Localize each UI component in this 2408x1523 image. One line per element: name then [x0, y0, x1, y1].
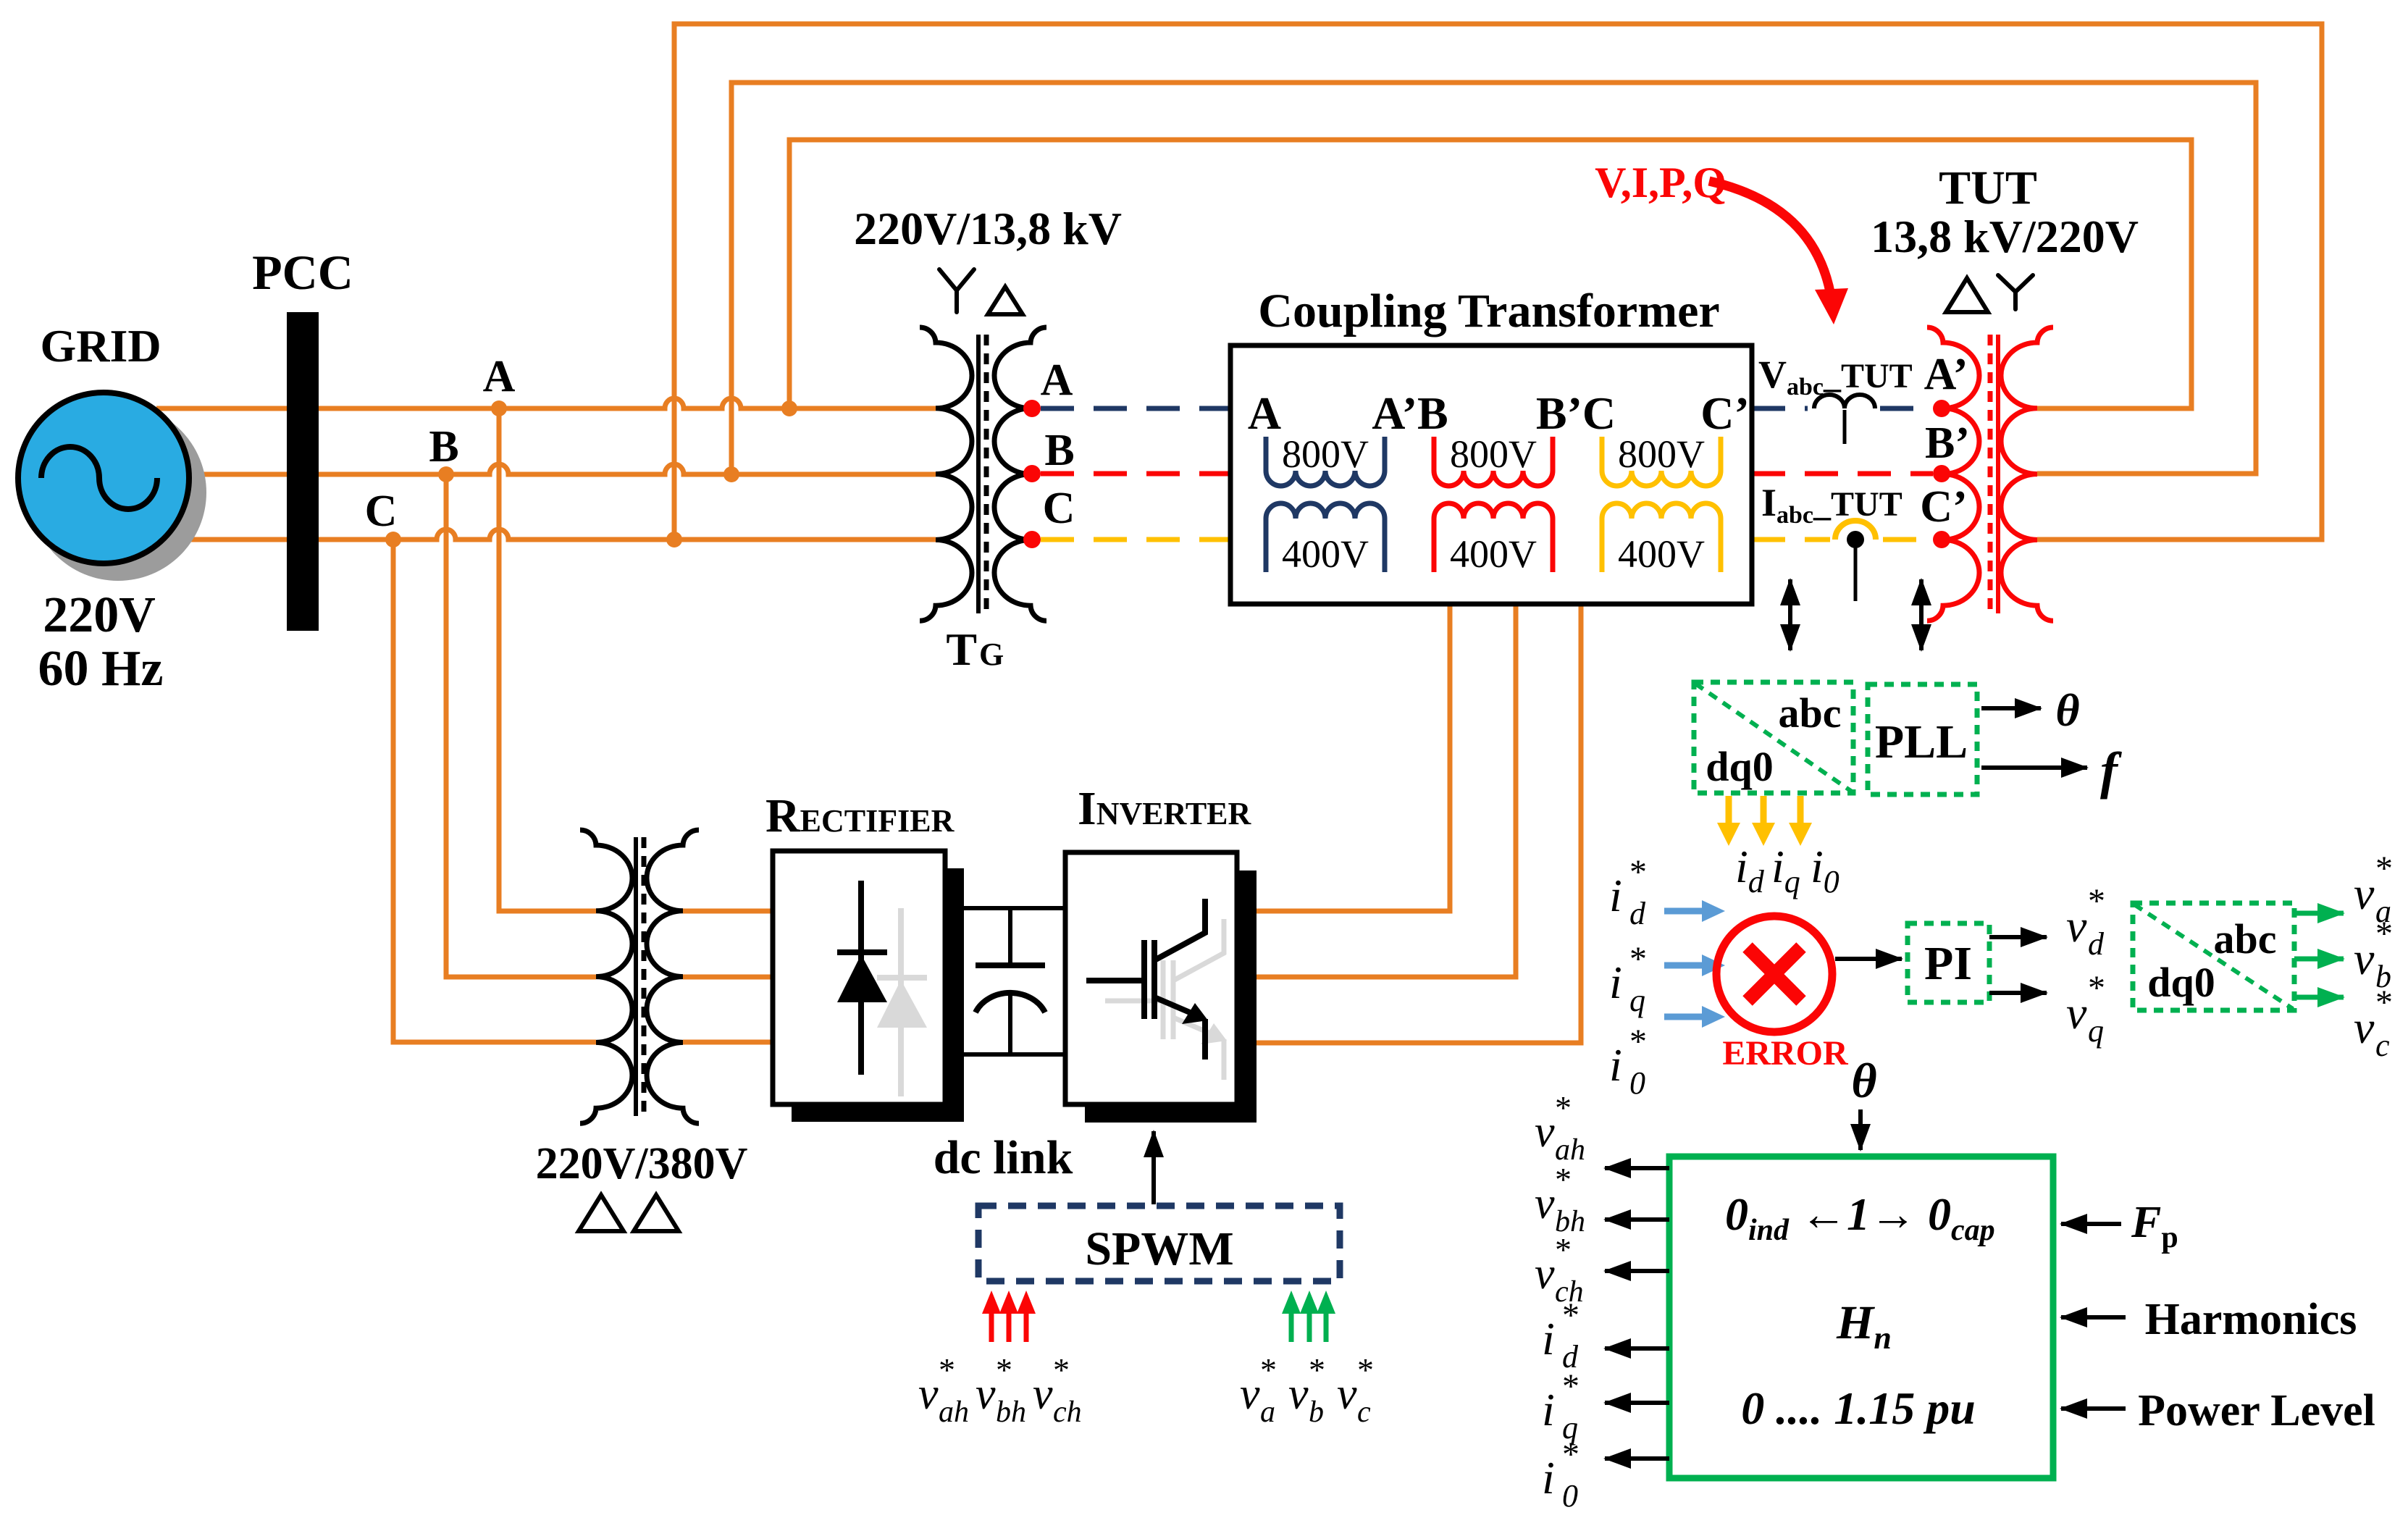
svg-text:0: 0	[1562, 1478, 1578, 1514]
svg-text:v: v	[1288, 1369, 1309, 1419]
svg-text:800V: 800V	[1282, 432, 1369, 476]
svg-text:G: G	[979, 637, 1004, 672]
svg-text:400V: 400V	[1282, 532, 1369, 576]
svg-text:q: q	[1629, 983, 1645, 1018]
svg-text:ah: ah	[939, 1396, 969, 1429]
svg-text:dq0: dq0	[1706, 743, 1774, 790]
svg-text:*: *	[2375, 849, 2393, 888]
svg-text:*: *	[1053, 1351, 1070, 1388]
svg-text:C’: C’	[1920, 482, 1967, 532]
svg-text:400V: 400V	[1450, 532, 1537, 576]
svg-text:A: A	[1041, 356, 1073, 405]
svg-text:v: v	[2354, 1002, 2375, 1053]
svg-text:13,8 kV/220V: 13,8 kV/220V	[1871, 211, 2139, 262]
svg-text:*: *	[2088, 969, 2105, 1007]
svg-text:*: *	[1260, 1351, 1277, 1388]
svg-text:Harmonics: Harmonics	[2145, 1295, 2357, 1344]
svg-text:ERROR: ERROR	[1722, 1034, 1849, 1073]
svg-text:v: v	[2354, 933, 2375, 984]
svg-text:abc: abc	[2214, 915, 2277, 962]
svg-text:*: *	[939, 1351, 955, 1388]
svg-text:0 .... 1.15 pu: 0 .... 1.15 pu	[1741, 1383, 1976, 1434]
svg-text:PI: PI	[1924, 937, 1972, 990]
svg-text:*: *	[1555, 1161, 1572, 1198]
svg-text:v: v	[1535, 1249, 1555, 1298]
svg-text:C: C	[1043, 484, 1075, 533]
svg-text:800V: 800V	[1618, 432, 1705, 476]
svg-text:PLL: PLL	[1875, 716, 1968, 768]
svg-text:v: v	[1535, 1107, 1555, 1157]
svg-text:*: *	[1562, 1367, 1580, 1406]
svg-text:i: i	[1542, 1384, 1555, 1435]
svg-text:800V: 800V	[1450, 432, 1537, 476]
svg-text:V,I,P,Q: V,I,P,Q	[1595, 159, 1727, 206]
svg-text:400V: 400V	[1618, 532, 1705, 576]
svg-text:C’: C’	[1700, 387, 1750, 439]
svg-text:220V/380V: 220V/380V	[536, 1139, 748, 1188]
svg-text:c: c	[1357, 1396, 1371, 1429]
svg-text:i: i	[1609, 870, 1622, 921]
svg-text:b: b	[1309, 1396, 1324, 1429]
svg-text:220V: 220V	[43, 587, 156, 643]
svg-text:B: B	[1044, 426, 1074, 475]
svg-text:T: T	[946, 624, 977, 675]
svg-text:v: v	[976, 1369, 996, 1419]
svg-text:a: a	[1260, 1396, 1275, 1429]
svg-text:v: v	[1033, 1369, 1053, 1419]
svg-text:SPWM: SPWM	[1085, 1222, 1233, 1275]
svg-text:220V/13,8 kV: 220V/13,8 kV	[854, 203, 1122, 254]
svg-text:*: *	[1562, 1296, 1580, 1335]
svg-text:v: v	[2354, 868, 2375, 919]
svg-text:i: i	[1542, 1452, 1555, 1503]
svg-text:c: c	[2375, 1028, 2390, 1063]
svg-text:*: *	[2375, 983, 2393, 1022]
svg-text:v: v	[918, 1369, 939, 1419]
svg-text:Power Level: Power Level	[2138, 1386, 2375, 1435]
svg-text:i: i	[1609, 1039, 1622, 1091]
svg-text:Vabc_TUT: Vabc_TUT	[1758, 353, 1913, 400]
svg-text:abc: abc	[1779, 689, 1842, 737]
svg-text:A: A	[483, 352, 516, 401]
svg-text:ch: ch	[1053, 1396, 1082, 1429]
svg-text:*: *	[996, 1351, 1012, 1388]
svg-text:Coupling Transformer: Coupling Transformer	[1258, 285, 1719, 337]
svg-text:*: *	[1629, 1023, 1647, 1061]
svg-text:v: v	[1240, 1369, 1260, 1419]
svg-text:A’B: A’B	[1372, 387, 1448, 439]
svg-text:0: 0	[1629, 1065, 1645, 1101]
svg-text:v: v	[2066, 900, 2087, 952]
svg-text:*: *	[1555, 1089, 1572, 1126]
svg-text:i: i	[1609, 957, 1622, 1008]
svg-text:*: *	[1629, 940, 1647, 978]
svg-text:PCC: PCC	[252, 245, 353, 300]
svg-text:v: v	[1535, 1179, 1555, 1228]
svg-text:B’: B’	[1925, 419, 1970, 468]
svg-text:60 Hz: 60 Hz	[38, 641, 163, 697]
svg-text:v: v	[2066, 987, 2087, 1039]
svg-text:GRID: GRID	[40, 320, 161, 372]
svg-text:*: *	[1555, 1231, 1572, 1268]
svg-text:*: *	[1357, 1351, 1374, 1388]
svg-text:*: *	[2088, 882, 2105, 920]
svg-text:d: d	[1629, 896, 1646, 931]
svg-text:B: B	[429, 422, 458, 471]
svg-text:θ: θ	[1851, 1053, 1876, 1108]
svg-text:*: *	[1309, 1351, 1325, 1388]
svg-text:TUT: TUT	[1939, 161, 2037, 214]
svg-text:dq0: dq0	[2147, 959, 2215, 1006]
svg-text:*: *	[1629, 853, 1647, 891]
svg-text:C: C	[365, 487, 398, 536]
svg-text:A’: A’	[1924, 350, 1968, 399]
svg-text:q: q	[2088, 1013, 2104, 1049]
svg-text:i: i	[1542, 1313, 1555, 1364]
svg-text:dc link: dc link	[934, 1131, 1073, 1184]
svg-text:B’C: B’C	[1536, 387, 1616, 439]
svg-text:d: d	[2088, 926, 2105, 962]
svg-text:bh: bh	[996, 1396, 1026, 1429]
svg-text:v: v	[1337, 1369, 1357, 1419]
svg-text:*: *	[2375, 915, 2393, 953]
svg-text:θ: θ	[2055, 684, 2079, 736]
svg-text:A: A	[1248, 387, 1281, 439]
svg-text:*: *	[1562, 1435, 1580, 1474]
